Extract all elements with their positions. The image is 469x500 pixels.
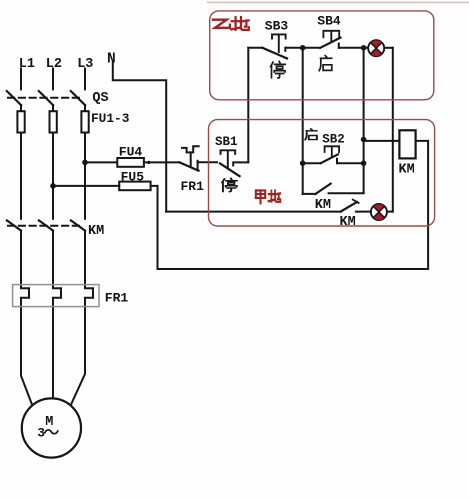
thermal element FR1 phase L2 (53, 285, 61, 307)
wire FU5 right (149, 185, 157, 187)
button SB3 fixed tick (284, 48, 286, 51)
svg-text:KM: KM (340, 215, 356, 230)
switch QS blade L3 (71, 91, 85, 105)
char 乙 (zone B title) (213, 20, 230, 28)
fuse FU4 (117, 158, 144, 167)
motor tilde squiggle (45, 430, 58, 434)
contactor KM blade L3 (71, 220, 85, 230)
button SB2 fixed tick (336, 159, 338, 163)
svg-text:KM: KM (88, 224, 104, 239)
svg-text:FU1-3: FU1-3 (91, 111, 130, 126)
node A (300, 45, 306, 51)
wire top box left (248, 47, 262, 49)
wire SB4 to node B (339, 47, 369, 49)
wire riser SB1 to upper box (247, 48, 249, 163)
fuse FU1 (17, 111, 24, 132)
char 停 (SB1) (222, 178, 237, 191)
fuse FU5 (119, 182, 150, 191)
thermal contact FR1 fixed terminal (197, 161, 199, 171)
switch QS blade L2 (39, 91, 53, 105)
box zone A (甲地) (209, 120, 435, 226)
switch QS linkage dashed (8, 97, 79, 99)
wire L1 to motor (21, 307, 32, 406)
wire L2 fuse to KM (52, 133, 54, 219)
wire L3 to motor (71, 307, 85, 406)
svg-text:N: N (107, 51, 116, 67)
wire L1 vertical (20, 69, 22, 90)
wire L3 to fuse (84, 105, 86, 111)
contact KM aux blade (NO) (316, 184, 331, 194)
svg-text:L1: L1 (19, 57, 35, 72)
wire L2 KM to FR1 (52, 231, 54, 285)
svg-text:KM: KM (315, 198, 331, 213)
wire FR1 to SB1 (198, 161, 217, 163)
svg-text:SB3: SB3 (265, 18, 289, 33)
wire N drop and route (113, 63, 166, 212)
motor M circle (22, 398, 81, 457)
thermal element FR1 phase L1 (21, 285, 29, 307)
button SB1 blade (NC) (220, 163, 240, 176)
wire KM NC to lamp HL2 (356, 211, 371, 213)
thermal contact FR1 blade (179, 162, 198, 170)
top gray border line (207, 2, 469, 4)
wire SB2 row left (303, 162, 321, 164)
wire riser lamp column (392, 48, 394, 212)
contactor KM blade L1 (7, 220, 21, 230)
svg-text:QS: QS (92, 91, 108, 106)
wire SB2 to node C (337, 162, 364, 164)
button SB4 blade (NO) (320, 38, 340, 48)
wire aux branch bottom left (303, 193, 316, 195)
wire L1 fuse to KM (20, 133, 22, 219)
thermal element FR1 phase L3 (85, 285, 93, 307)
wire aux branch bottom right (329, 192, 364, 194)
svg-text:L3: L3 (77, 57, 93, 72)
node FU4 tap on L3 (82, 160, 88, 166)
wire L3 vertical (84, 69, 86, 90)
contactor KM linkage dashed (8, 225, 79, 227)
wire L1 to fuse (20, 105, 22, 111)
wire lamp branch from N riser (166, 211, 340, 213)
wire L3 fuse to KM (84, 133, 86, 219)
wire L2 vertical (52, 69, 54, 90)
char 地 (zone A title) (268, 190, 280, 201)
button SB2 blade (NO) (321, 154, 338, 163)
char 启 (SB4) (319, 56, 332, 71)
wire riser node C (363, 140, 365, 194)
contact KM NC tip bar (353, 200, 359, 203)
char 启 (SB2) (305, 129, 317, 140)
wire L3 KM to FR1 (84, 231, 86, 285)
char 停 (SB3) (271, 61, 286, 78)
wire FU5 to L2 (53, 185, 119, 187)
junction dots (50, 45, 366, 189)
svg-text:FU4: FU4 (119, 145, 143, 160)
wire coil KM to return riser (416, 141, 429, 269)
box zone B (乙地) (210, 11, 434, 100)
wire L1 KM to FR1 (20, 231, 22, 285)
contactor KM blade L2 (39, 220, 53, 230)
wire riser node A down (302, 48, 304, 194)
lamp HL1 (368, 40, 384, 56)
wire return bottom to FU5 (158, 186, 429, 269)
button SB1 fixed tick (232, 162, 234, 165)
svg-text:FU5: FU5 (121, 169, 145, 184)
fuse FU2 (50, 111, 57, 132)
svg-text:FR1: FR1 (105, 291, 129, 306)
wire SB1 to riser (234, 161, 249, 163)
button SB4 plunger (323, 31, 339, 42)
node B (361, 45, 367, 51)
button SB3 blade (NC) (262, 48, 287, 59)
thermal contact FR1 trip symbol (182, 146, 199, 166)
wire FU4 to FR1 contact (144, 161, 179, 163)
wire lamp HL2 right (386, 211, 392, 213)
wire L2 to motor (52, 307, 54, 399)
node SB2 left (300, 160, 306, 166)
button SB1 plunger (221, 150, 236, 167)
node coil tap (361, 137, 367, 143)
svg-text:M: M (45, 415, 53, 430)
svg-text:L2: L2 (46, 57, 62, 72)
lamp HL2 (371, 204, 387, 220)
wire L2 to fuse (52, 105, 54, 111)
contact KM NC blade for lamp (341, 202, 357, 212)
wire node C to coil KM (364, 140, 400, 142)
button SB3 plunger (272, 34, 286, 52)
wire node A to SB4 (303, 47, 321, 49)
switch QS blade L1 (7, 91, 21, 105)
svg-text:FR1: FR1 (181, 179, 205, 194)
wire SB3 to node A (286, 47, 303, 49)
svg-text:KM: KM (399, 163, 415, 178)
button SB4 fixed tick (338, 44, 340, 48)
svg-text:SB1: SB1 (215, 135, 238, 149)
coil KM rectangle (399, 130, 415, 158)
svg-text:SB4: SB4 (317, 13, 341, 28)
node small after FU4 (147, 161, 150, 164)
wire lamp HL1 right (384, 47, 393, 49)
node FU5 tap on L2 (50, 183, 56, 189)
button SB2 plunger (325, 146, 340, 157)
wire riser node B down (363, 48, 365, 140)
char 甲 (zone A title) (256, 190, 265, 203)
node SB2 right (361, 160, 367, 166)
svg-text:SB2: SB2 (322, 133, 345, 147)
relay FR1 heater enclosure (13, 285, 99, 307)
wire control phase from L3 to FU4 (85, 161, 117, 163)
fuse FU3 (81, 111, 88, 132)
char 地 (zone B title) (231, 17, 249, 30)
